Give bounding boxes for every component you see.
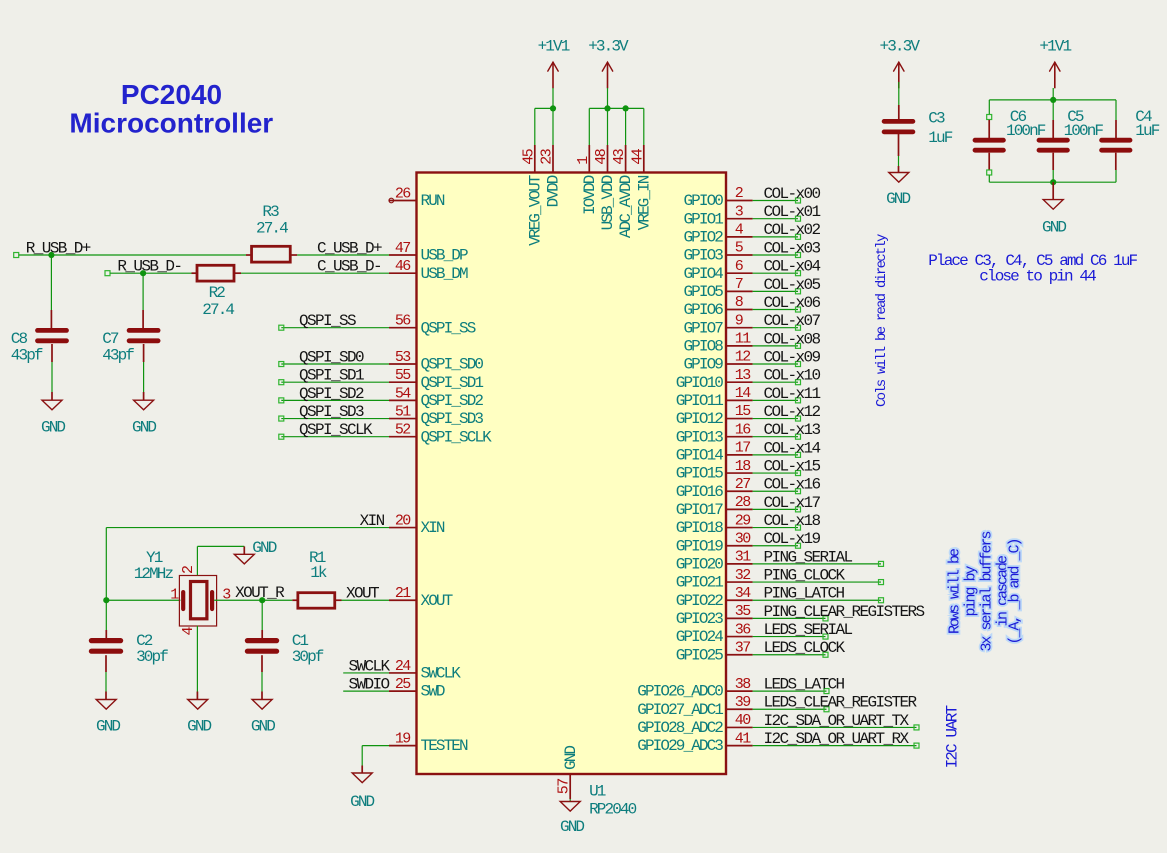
- svg-text:QSPI_SD0: QSPI_SD0: [421, 356, 484, 374]
- svg-text:GPIO11: GPIO11: [676, 392, 724, 410]
- svg-text:COL-x16: COL-x16: [764, 476, 821, 494]
- svg-text:25: 25: [395, 676, 411, 693]
- svg-text:GPIO18: GPIO18: [676, 519, 724, 537]
- svg-text:30pf: 30pf: [292, 648, 324, 666]
- svg-text:27: 27: [735, 476, 750, 493]
- svg-text:C7: C7: [102, 330, 119, 348]
- svg-text:52: 52: [395, 422, 410, 439]
- svg-text:I2C UART: I2C UART: [944, 705, 962, 768]
- svg-text:28: 28: [735, 494, 751, 511]
- svg-text:GPIO7: GPIO7: [683, 319, 723, 337]
- svg-text:GND: GND: [41, 419, 65, 437]
- svg-text:LEDS_LATCH: LEDS_LATCH: [764, 675, 845, 693]
- svg-text:3x serial buffers: 3x serial buffers: [979, 531, 996, 651]
- svg-text:GPIO16: GPIO16: [676, 483, 724, 501]
- svg-text:31: 31: [735, 549, 751, 566]
- svg-text:C8: C8: [11, 330, 28, 348]
- svg-text:15: 15: [735, 403, 751, 420]
- svg-text:GPIO20: GPIO20: [676, 556, 724, 574]
- svg-text:39: 39: [735, 694, 750, 711]
- svg-text:43pf: 43pf: [11, 347, 43, 365]
- svg-text:GND: GND: [252, 539, 276, 557]
- svg-text:QSPI_SD0: QSPI_SD0: [299, 348, 364, 366]
- svg-text:29: 29: [735, 512, 750, 529]
- svg-text:47: 47: [395, 240, 410, 257]
- svg-text:14: 14: [735, 385, 751, 402]
- svg-text:XIN: XIN: [421, 519, 445, 537]
- svg-text:51: 51: [395, 404, 411, 421]
- svg-text:COL-x08: COL-x08: [764, 330, 821, 348]
- svg-text:COL-x11: COL-x11: [764, 385, 821, 403]
- svg-text:IOVDD: IOVDD: [581, 175, 599, 215]
- svg-text:LEDS_CLOCK: LEDS_CLOCK: [764, 639, 846, 657]
- svg-text:close to pin 44: close to pin 44: [979, 267, 1096, 285]
- svg-text:PING_LATCH: PING_LATCH: [764, 585, 845, 603]
- svg-text:27.4: 27.4: [202, 301, 234, 319]
- svg-text:GND: GND: [350, 793, 374, 811]
- svg-text:GPIO13: GPIO13: [676, 428, 724, 446]
- svg-text:4: 4: [180, 627, 197, 636]
- svg-text:LEDS_SERIAL: LEDS_SERIAL: [764, 621, 853, 639]
- svg-text:19: 19: [395, 731, 410, 748]
- svg-text:GND: GND: [560, 818, 584, 836]
- svg-text:GPIO21: GPIO21: [676, 574, 724, 592]
- svg-text:+3.3V: +3.3V: [588, 38, 629, 56]
- svg-text:DVDD: DVDD: [545, 175, 563, 207]
- svg-text:20: 20: [395, 513, 411, 530]
- svg-text:30pf: 30pf: [136, 648, 168, 666]
- svg-text:LEDS_CLEAR_REGISTER: LEDS_CLEAR_REGISTER: [764, 694, 918, 712]
- svg-text:GPIO2: GPIO2: [683, 228, 723, 246]
- svg-text:45: 45: [520, 148, 537, 164]
- svg-text:GPIO10: GPIO10: [676, 374, 724, 392]
- svg-text:SWD: SWD: [421, 683, 445, 701]
- svg-text:11: 11: [735, 331, 751, 348]
- svg-text:I2C_SDA_OR_UART_RX: I2C_SDA_OR_UART_RX: [764, 730, 910, 748]
- svg-text:23: 23: [539, 148, 556, 164]
- svg-text:U1: U1: [589, 783, 606, 801]
- svg-text:SWCLK: SWCLK: [348, 657, 390, 675]
- svg-text:9: 9: [735, 312, 743, 329]
- svg-text:GPIO8: GPIO8: [683, 337, 723, 355]
- svg-text:R_USB_D+: R_USB_D+: [26, 239, 91, 257]
- svg-text:COL-x17: COL-x17: [764, 494, 821, 512]
- svg-text:R_USB_D-: R_USB_D-: [117, 258, 181, 276]
- svg-text:XOUT_R: XOUT_R: [235, 584, 285, 602]
- svg-text:GND: GND: [132, 419, 156, 437]
- svg-text:12: 12: [735, 349, 750, 366]
- svg-text:QSPI_SD1: QSPI_SD1: [421, 374, 484, 392]
- svg-text:COL-x02: COL-x02: [764, 221, 821, 239]
- svg-text:C3: C3: [928, 110, 945, 128]
- svg-text:56: 56: [395, 313, 411, 330]
- svg-text:QSPI_SD1: QSPI_SD1: [299, 367, 364, 385]
- svg-text:GPIO15: GPIO15: [676, 465, 724, 483]
- svg-text:XOUT: XOUT: [346, 585, 379, 603]
- svg-text:30: 30: [735, 530, 751, 547]
- svg-text:GPIO19: GPIO19: [676, 537, 724, 555]
- svg-text:12MHz: 12MHz: [134, 565, 174, 583]
- svg-text:COL-x00: COL-x00: [764, 185, 821, 203]
- svg-text:GPIO27_ADC1: GPIO27_ADC1: [637, 701, 723, 719]
- svg-text:VREG_VOUT: VREG_VOUT: [526, 175, 544, 246]
- svg-text:R3: R3: [262, 203, 279, 221]
- svg-text:43: 43: [611, 148, 628, 164]
- svg-text:2: 2: [735, 185, 743, 202]
- svg-text:3: 3: [222, 587, 231, 604]
- svg-text:COL-x15: COL-x15: [764, 457, 821, 475]
- svg-text:COL-x05: COL-x05: [764, 276, 821, 294]
- svg-text:GPIO29_ADC3: GPIO29_ADC3: [637, 737, 723, 755]
- svg-text:100nF: 100nF: [1006, 122, 1046, 140]
- svg-text:16: 16: [735, 421, 751, 438]
- svg-text:41: 41: [735, 730, 751, 747]
- svg-text:43pf: 43pf: [102, 347, 134, 365]
- svg-text:35: 35: [735, 603, 751, 620]
- svg-text:RP2040: RP2040: [589, 801, 637, 819]
- svg-text:GPIO6: GPIO6: [683, 301, 723, 319]
- svg-text:COL-x13: COL-x13: [764, 421, 821, 439]
- svg-text:44: 44: [629, 148, 646, 164]
- svg-text:+3.3V: +3.3V: [880, 38, 921, 56]
- svg-text:ADC_AVDD: ADC_AVDD: [617, 175, 635, 238]
- svg-text:32: 32: [735, 567, 750, 584]
- svg-text:COL-x09: COL-x09: [764, 348, 821, 366]
- svg-text:27.4: 27.4: [256, 220, 288, 238]
- svg-text:COL-x12: COL-x12: [764, 403, 821, 421]
- svg-text:GND: GND: [886, 190, 910, 208]
- svg-text:GPIO22: GPIO22: [676, 592, 724, 610]
- svg-text:QSPI_SCLK: QSPI_SCLK: [299, 421, 373, 439]
- svg-text:17: 17: [735, 440, 750, 457]
- svg-text:ping by: ping by: [963, 565, 980, 616]
- svg-text:I2C_SDA_OR_UART_TX: I2C_SDA_OR_UART_TX: [764, 712, 910, 730]
- svg-text:COL-x01: COL-x01: [764, 203, 821, 221]
- svg-text:GPIO24: GPIO24: [676, 628, 724, 646]
- svg-text:USB_VDD: USB_VDD: [599, 175, 617, 230]
- svg-text:QSPI_SD3: QSPI_SD3: [421, 410, 484, 428]
- svg-text:GND: GND: [187, 718, 211, 736]
- svg-text:1k: 1k: [310, 564, 327, 582]
- svg-text:GND: GND: [1042, 218, 1066, 236]
- svg-text:GND: GND: [96, 718, 120, 736]
- svg-text:2: 2: [180, 566, 197, 574]
- svg-text:PING_CLOCK: PING_CLOCK: [764, 566, 846, 584]
- svg-text:24: 24: [395, 658, 411, 675]
- svg-text:QSPI_SCLK: QSPI_SCLK: [421, 428, 493, 446]
- svg-text:Cols will be read directly: Cols will be read directly: [874, 234, 890, 407]
- svg-text:QSPI_SS: QSPI_SS: [421, 319, 476, 337]
- svg-text:1uF: 1uF: [928, 129, 952, 147]
- svg-text:COL-x03: COL-x03: [764, 239, 821, 257]
- svg-text:55: 55: [395, 367, 411, 384]
- svg-text:GND: GND: [251, 718, 275, 736]
- svg-text:34: 34: [735, 585, 751, 602]
- svg-text:COL-x19: COL-x19: [764, 530, 821, 548]
- svg-text:GPIO4: GPIO4: [683, 265, 723, 283]
- svg-text:SWDIO: SWDIO: [348, 675, 389, 693]
- svg-text:48: 48: [593, 148, 610, 164]
- svg-text:53: 53: [395, 349, 411, 366]
- svg-text:GPIO5: GPIO5: [683, 283, 723, 301]
- svg-text:+1V1: +1V1: [1039, 38, 1071, 56]
- svg-text:R2: R2: [209, 284, 226, 302]
- svg-text:13: 13: [735, 367, 751, 384]
- svg-text:GPIO1: GPIO1: [683, 210, 723, 228]
- svg-text:USB_DM: USB_DM: [421, 265, 469, 283]
- svg-text:GPIO17: GPIO17: [676, 501, 724, 519]
- svg-text:COL-x07: COL-x07: [764, 312, 821, 330]
- svg-text:COL-x04: COL-x04: [764, 258, 821, 276]
- svg-text:VREG_IN: VREG_IN: [635, 175, 653, 230]
- svg-text:GPIO25: GPIO25: [676, 646, 724, 664]
- svg-text:GPIO9: GPIO9: [683, 356, 723, 374]
- svg-text:Microcontroller: Microcontroller: [69, 108, 273, 139]
- svg-text:57: 57: [556, 779, 573, 794]
- svg-text:(_A, _b and _C): (_A, _b and _C): [1007, 539, 1024, 644]
- svg-text:GPIO3: GPIO3: [683, 247, 723, 265]
- svg-text:QSPI_SD3: QSPI_SD3: [299, 403, 364, 421]
- svg-text:PING_SERIAL: PING_SERIAL: [764, 548, 853, 566]
- svg-text:21: 21: [395, 585, 411, 602]
- svg-text:GPIO26_ADC0: GPIO26_ADC0: [637, 683, 723, 701]
- svg-text:1uF: 1uF: [1135, 122, 1159, 140]
- svg-text:TESTEN: TESTEN: [421, 737, 469, 755]
- svg-text:100nF: 100nF: [1064, 122, 1104, 140]
- svg-text:COL-x14: COL-x14: [764, 439, 821, 457]
- svg-text:7: 7: [735, 276, 743, 293]
- svg-text:Rows will be: Rows will be: [947, 548, 964, 634]
- svg-text:GPIO12: GPIO12: [676, 410, 724, 428]
- svg-text:PING_CLEAR_REGISTERS: PING_CLEAR_REGISTERS: [764, 603, 925, 621]
- svg-text:GPIO14: GPIO14: [676, 446, 724, 464]
- svg-text:1: 1: [170, 587, 179, 604]
- svg-text:RUN: RUN: [421, 192, 445, 210]
- svg-text:GPIO0: GPIO0: [683, 192, 723, 210]
- svg-text:GPIO28_ADC2: GPIO28_ADC2: [637, 719, 723, 737]
- svg-text:54: 54: [395, 385, 411, 402]
- svg-text:QSPI_SS: QSPI_SS: [299, 312, 356, 330]
- svg-text:26: 26: [395, 186, 411, 203]
- svg-text:46: 46: [395, 258, 411, 275]
- svg-text:C_USB_D+: C_USB_D+: [317, 239, 382, 257]
- svg-text:36: 36: [735, 621, 751, 638]
- svg-text:38: 38: [735, 676, 751, 693]
- svg-text:QSPI_SD2: QSPI_SD2: [421, 392, 484, 410]
- svg-text:+1V1: +1V1: [538, 38, 570, 56]
- svg-text:USB_DP: USB_DP: [421, 247, 469, 265]
- svg-text:PC2040: PC2040: [121, 79, 222, 110]
- svg-text:SWCLK: SWCLK: [421, 665, 462, 683]
- svg-text:COL-x06: COL-x06: [764, 294, 821, 312]
- svg-text:XIN: XIN: [360, 512, 385, 530]
- svg-text:QSPI_SD2: QSPI_SD2: [299, 385, 364, 403]
- svg-text:37: 37: [735, 639, 750, 656]
- svg-text:18: 18: [735, 458, 751, 475]
- svg-text:C_USB_D-: C_USB_D-: [317, 258, 381, 276]
- svg-text:COL-x18: COL-x18: [764, 512, 821, 530]
- svg-text:XOUT: XOUT: [421, 592, 453, 610]
- svg-text:GND: GND: [562, 746, 580, 770]
- svg-text:40: 40: [735, 712, 751, 729]
- svg-text:COL-x10: COL-x10: [764, 367, 821, 385]
- svg-text:GPIO23: GPIO23: [676, 610, 724, 628]
